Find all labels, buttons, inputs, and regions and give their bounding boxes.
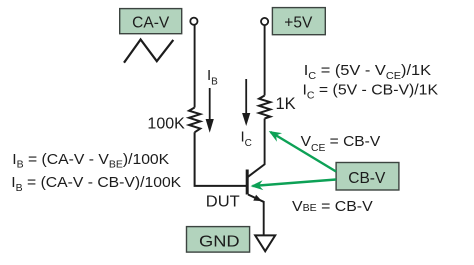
wire: 100K bottom down and right to transistor base	[195, 132, 246, 186]
equation I_C = (5V - CB-V)/1K	[303, 82, 439, 102]
label DUT	[206, 194, 240, 210]
current arrow I_C	[242, 79, 250, 126]
wire: CA-V terminal down to 100K resistor	[194, 25, 196, 108]
equation I_B = (CA-V - V_BE)/100K	[12, 152, 170, 171]
transistor DUT (NPN)	[247, 164, 265, 202]
label V_BE = CB-V	[292, 198, 373, 215]
svg-text:100K: 100K	[147, 116, 185, 133]
svg-text:DUT: DUT	[206, 194, 240, 210]
svg-text:VBE = CB-V: VBE = CB-V	[292, 198, 373, 215]
label V_CE = CB-V	[301, 133, 381, 154]
svg-text:GND: GND	[199, 233, 240, 250]
pointer arrow: CB-V to V_BE node	[253, 180, 337, 187]
pointer arrow: CB-V to V_CE node	[271, 132, 337, 172]
voltage source box CA-V	[120, 9, 182, 34]
svg-text:CB-V: CB-V	[348, 170, 386, 187]
svg-text:1K: 1K	[276, 95, 296, 113]
svg-text:IB = (CA-V - VBE)/100K: IB = (CA-V - VBE)/100K	[12, 152, 170, 171]
svg-text:VCE = CB-V: VCE = CB-V	[301, 133, 381, 154]
label box CB-V	[336, 163, 399, 191]
wire: +5V terminal down to 1K resistor	[264, 25, 266, 95]
svg-text:IC = (5V - VCE)/1K: IC = (5V - VCE)/1K	[304, 63, 432, 82]
resistor 100K (zigzag)	[189, 108, 200, 133]
svg-text:IC = (5V - CB-V)/1K: IC = (5V - CB-V)/1K	[303, 82, 439, 102]
svg-text:IC: IC	[241, 129, 252, 150]
equation I_B = (CA-V - CB-V)/100K	[11, 174, 182, 194]
svg-text:+5V: +5V	[284, 15, 313, 32]
ground symbol	[255, 235, 275, 251]
current arrow I_B	[206, 88, 214, 133]
wire: 1K bottom down to transistor collector	[264, 119, 266, 165]
label box GND	[187, 227, 250, 253]
terminal node (+5V)	[261, 18, 268, 25]
voltage source box +5V	[272, 8, 325, 35]
resistor 1K (zigzag)	[259, 96, 270, 119]
equation I_C = (5V - V_CE)/1K	[304, 63, 432, 82]
svg-text:CA-V: CA-V	[132, 14, 170, 31]
svg-text:IB = (CA-V - CB-V)/100K: IB = (CA-V - CB-V)/100K	[11, 174, 182, 194]
triangle waveform symbol	[124, 40, 173, 63]
svg-text:IB: IB	[207, 67, 218, 88]
wire: emitter down to ground	[263, 201, 265, 235]
terminal node (CA-V input)	[190, 18, 197, 25]
